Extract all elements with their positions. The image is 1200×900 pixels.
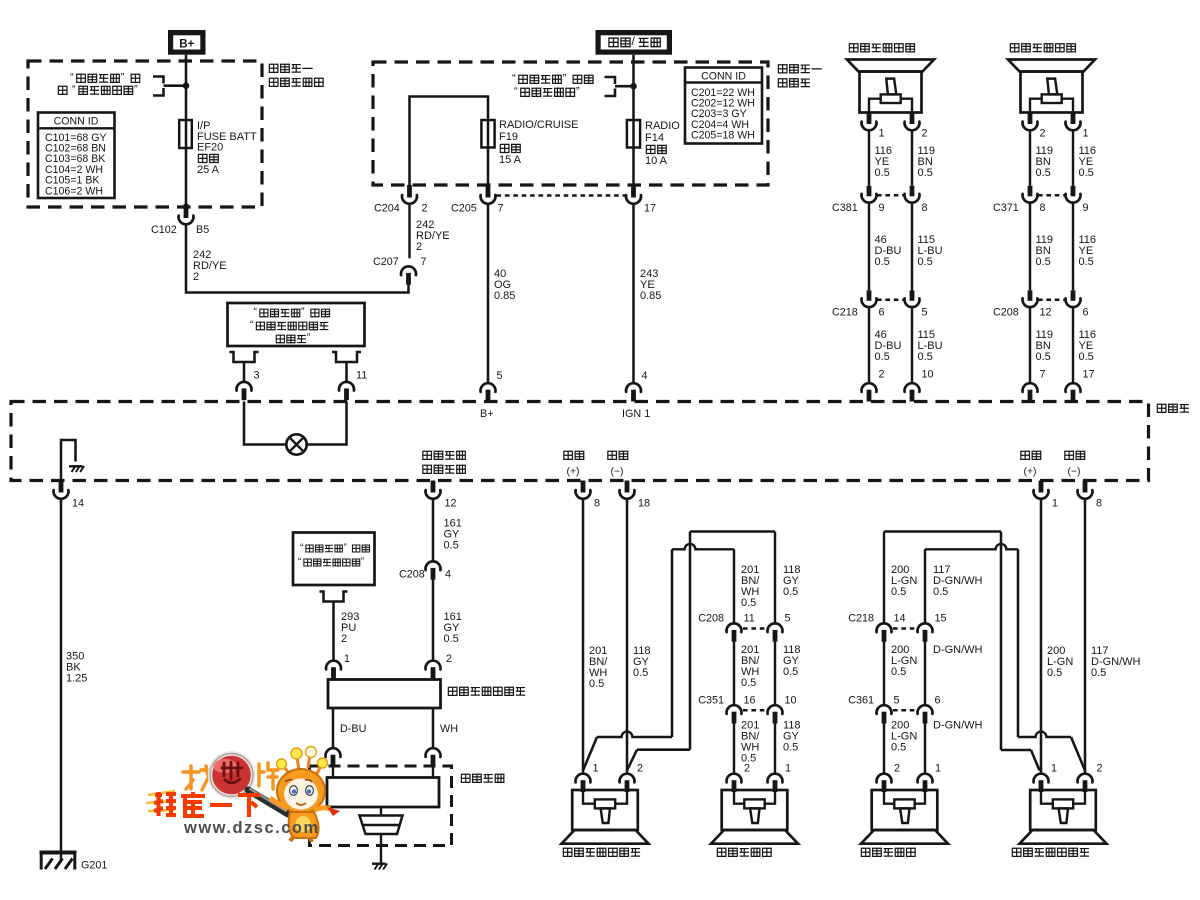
radio pin 3 connector	[237, 382, 252, 391]
svg-text:“: “	[514, 86, 518, 98]
svg-text:0.5: 0.5	[741, 597, 756, 609]
radio pin 8 connector (right output -)	[1083, 481, 1088, 493]
svg-text:6: 6	[1083, 307, 1089, 319]
svg-text:C218: C218	[848, 613, 874, 625]
svg-text:C204: C204	[374, 203, 400, 215]
wire inside fuse box 2 from C204 up and over to fuse F19	[410, 97, 489, 186]
svg-text:“: “	[72, 84, 76, 96]
svg-text:0.5: 0.5	[444, 540, 459, 552]
speaker pins 2/1	[877, 774, 892, 783]
svg-text:8: 8	[594, 498, 600, 510]
branch junction diagonal from tweeter-L pin1	[583, 737, 597, 771]
antenna coupler cone	[380, 807, 382, 816]
svg-text:RADIO/CRUISE: RADIO/CRUISE	[499, 119, 578, 131]
ground G201 symbol	[40, 851, 77, 855]
svg-text:11: 11	[744, 613, 755, 625]
power node RUN/START box	[596, 30, 673, 55]
svg-text:15 A: 15 A	[499, 154, 522, 166]
branch vertical x672	[671, 549, 674, 737]
wires between C218 and C361	[883, 640, 885, 705]
label fuse box 2: rongsihe - instrument panel	[778, 65, 787, 73]
svg-text:”: ”	[301, 306, 305, 318]
svg-text:2: 2	[422, 203, 428, 215]
label: antenna module power signal	[423, 451, 432, 459]
connector C361 pins 5/6	[877, 705, 892, 714]
svg-text:4: 4	[642, 370, 648, 382]
wire 200 L-GN 0.5 main (pin1 to tweeter-R pin1)	[1040, 500, 1043, 773]
svg-text:“: “	[70, 72, 74, 84]
wire D-BU from antenna module	[332, 708, 335, 747]
svg-text:F14: F14	[645, 132, 664, 144]
svg-text:“: “	[300, 542, 303, 553]
glass antenna pin connector left	[326, 748, 341, 757]
junction dot on B+ wire	[183, 82, 190, 89]
connector C204 pin 2	[407, 185, 412, 198]
connector C371 pins 8/9	[1028, 186, 1033, 197]
branch horizontal y549 with hop over x1001 vertical	[925, 544, 1018, 549]
watermark dzsc logo	[146, 747, 340, 843]
svg-text:0.5: 0.5	[589, 678, 604, 690]
svg-text:6: 6	[935, 695, 941, 707]
svg-text:1.25: 1.25	[66, 673, 87, 685]
wires to speaker	[883, 721, 885, 773]
connector C205 pin 17	[631, 185, 636, 198]
speaker symbol 右前扬声器	[872, 790, 938, 830]
svg-text:10 A: 10 A	[645, 155, 668, 167]
svg-text:1: 1	[593, 763, 599, 775]
svg-text:(−): (−)	[611, 467, 624, 478]
svg-text:2: 2	[341, 633, 347, 645]
svg-text:D-GN/WH: D-GN/WH	[933, 644, 983, 656]
svg-text:D-GN/WH: D-GN/WH	[933, 719, 983, 731]
svg-text:14: 14	[72, 498, 84, 510]
radio pin 8 connector (left output +)	[581, 481, 586, 493]
svg-text:9: 9	[1083, 202, 1089, 214]
svg-text:1: 1	[1083, 128, 1089, 140]
wire EF20 to C102	[185, 148, 188, 204]
fuse box 1 (engine compartment) dashed outline	[28, 61, 262, 207]
branch vertical x1001	[1000, 532, 1003, 751]
bracket under note box right	[332, 352, 361, 362]
svg-text:D-BU: D-BU	[340, 723, 366, 735]
label output(-) left	[608, 451, 617, 459]
svg-text:C102: C102	[151, 224, 177, 236]
svg-text:5: 5	[785, 613, 791, 625]
branch vertical x690	[689, 532, 692, 750]
svg-text:RADIO: RADIO	[645, 120, 680, 132]
svg-text:15: 15	[935, 613, 947, 625]
wires between C208 and C351	[733, 640, 735, 705]
svg-text:0.5: 0.5	[918, 256, 933, 268]
svg-text:(−): (−)	[1068, 467, 1081, 478]
bracket to RUN/START wire	[605, 77, 634, 96]
wire 293 PU 2	[332, 611, 335, 660]
svg-text:”: ”	[576, 86, 580, 98]
wires down to connector C218	[883, 532, 885, 623]
antenna module pin 2 connector	[426, 661, 441, 670]
svg-text:C205=18 WH: C205=18 WH	[691, 130, 755, 142]
svg-text:2: 2	[744, 763, 750, 775]
svg-text:C208: C208	[698, 613, 724, 625]
svg-text:8: 8	[922, 202, 928, 214]
wire 242 RD/YE 2 between C204 and C207	[408, 205, 410, 258]
svg-text:0.5: 0.5	[783, 666, 798, 678]
speaker connector pin 1	[867, 113, 872, 125]
svg-text:0.5: 0.5	[1047, 667, 1062, 679]
svg-text:7: 7	[498, 203, 504, 215]
speaker label 右前扬声器	[861, 848, 870, 856]
bracket under note box left	[230, 352, 259, 362]
radio pins 7/17 connectors	[1023, 383, 1038, 392]
svg-text:EF20: EF20	[197, 142, 223, 154]
svg-text:0.5: 0.5	[1091, 667, 1106, 679]
svg-text:C106=2 WH: C106=2 WH	[45, 185, 103, 197]
svg-text:”: ”	[343, 542, 346, 553]
svg-text:6: 6	[879, 307, 885, 319]
svg-text:0.5: 0.5	[891, 586, 906, 598]
svg-text:4: 4	[445, 569, 451, 581]
svg-text:18: 18	[638, 498, 650, 510]
bracket under defogger note box	[320, 592, 348, 602]
svg-text:0.5: 0.5	[1036, 167, 1051, 179]
connector C208 pin 4 (antenna feed)	[426, 561, 441, 570]
connector C218 pins 6/5	[867, 290, 872, 301]
branch horizontal y737 with hop over 118GY wire	[597, 732, 672, 737]
branch horizontal y737 with hop over main + wire	[1018, 732, 1071, 737]
tweeter-L pin 1 connector	[582, 771, 584, 773]
svg-text:”: ”	[563, 73, 567, 85]
glass antenna (boli tianxian) dashed box	[310, 766, 452, 846]
glass antenna element rectangle	[327, 778, 439, 808]
connector C205 in-line dashed link to pin 17	[497, 194, 626, 197]
branch vertical x1018	[1017, 549, 1020, 737]
fuse F19	[481, 120, 494, 148]
svg-text:0.5: 0.5	[891, 741, 906, 753]
svg-text:2: 2	[193, 271, 199, 283]
connector C381 pins 9/8	[867, 186, 872, 197]
svg-text:0.5: 0.5	[1036, 256, 1051, 268]
svg-text:“: “	[250, 319, 254, 331]
wire 350 BK 1.25 to ground G201	[60, 500, 63, 852]
speaker connector pin 1	[1071, 113, 1076, 125]
tweeter-R pin 2 connector	[1084, 771, 1086, 773]
svg-text:2: 2	[1097, 763, 1103, 775]
svg-text:C218: C218	[832, 307, 858, 319]
wire 117 D-GN/WH 0.5 main (pin8 to tweeter-R pin2)	[1084, 500, 1087, 771]
svg-text:11: 11	[356, 370, 367, 382]
svg-text:0.5: 0.5	[1079, 167, 1094, 179]
svg-text:“: “	[254, 306, 258, 318]
speaker pins 2/1	[727, 774, 742, 783]
wire 40 OG 0.85 to radio pin 5	[487, 205, 490, 382]
svg-text:“: “	[298, 556, 301, 567]
svg-text:CONN ID: CONN ID	[54, 116, 99, 128]
bracket to B+ wire	[153, 77, 186, 96]
wire cone to chassis ground	[380, 834, 382, 863]
radio pin 5 connector	[481, 383, 496, 392]
svg-text:1: 1	[1051, 763, 1057, 775]
branch horizontal y531.5 to C208 pin 5	[690, 530, 775, 533]
speaker label 左侧高频扬声器	[563, 848, 572, 856]
svg-text:12: 12	[1040, 307, 1052, 319]
wire 161 GY 0.5 lower	[432, 578, 435, 660]
svg-text:”: ”	[134, 84, 138, 96]
svg-text:(+): (+)	[1024, 467, 1037, 478]
wire WH from antenna module	[432, 708, 435, 747]
svg-text:2: 2	[879, 369, 885, 381]
svg-text:B+: B+	[480, 408, 494, 420]
svg-text:0.5: 0.5	[891, 666, 906, 678]
svg-text:8: 8	[1096, 498, 1102, 510]
svg-text:”: ”	[361, 556, 364, 567]
svg-text:17: 17	[1083, 369, 1095, 381]
branch horizontal y531.5 to C218 pin 14	[884, 530, 1001, 533]
svg-text:10: 10	[785, 695, 797, 707]
svg-text:7: 7	[421, 256, 427, 268]
svg-text:5: 5	[497, 370, 503, 382]
svg-text:C208: C208	[993, 307, 1019, 319]
svg-text:0.5: 0.5	[1036, 351, 1051, 363]
label output(-) right	[1065, 451, 1074, 459]
wire B+ to fuse EF20	[185, 55, 188, 120]
speaker connector pin 2	[910, 113, 915, 125]
lamp symbol (circle-X)	[286, 434, 306, 454]
connector C207 pin 7	[401, 266, 416, 275]
speaker symbol 右侧高频扬声器	[1030, 790, 1096, 830]
svg-text:2: 2	[1040, 128, 1046, 140]
tweeter-R pin 1 connector	[1040, 771, 1042, 773]
connector C205 pin 7	[486, 185, 491, 198]
svg-text:17: 17	[644, 203, 656, 215]
branch horizontal y750	[1001, 749, 1031, 752]
svg-text:0.5: 0.5	[783, 586, 798, 598]
ground wire inside radio (pin 14 net)	[61, 440, 76, 481]
power node B+ box	[168, 30, 206, 55]
connector C208 pins 11/5	[727, 623, 742, 632]
wire RUN/START down to fuse F14	[632, 55, 635, 120]
label output(+) right	[1021, 451, 1030, 459]
chassis ground symbol inside radio	[69, 465, 83, 467]
svg-text:0.5: 0.5	[933, 586, 948, 598]
svg-text:0.5: 0.5	[875, 256, 890, 268]
svg-text:8: 8	[1040, 202, 1046, 214]
svg-text:C351: C351	[698, 695, 724, 707]
svg-text:2: 2	[446, 653, 452, 665]
speaker symbol 左侧高频扬声器	[572, 790, 638, 830]
connector C218 pins 14/15	[877, 623, 892, 632]
glass antenna pin connector right	[426, 748, 441, 757]
svg-text:1: 1	[935, 763, 941, 775]
illumination lamp wire inside radio	[244, 402, 286, 445]
wire 118 GY 0.5 main (pin18 to tweeter-L pin2)	[626, 500, 629, 771]
svg-text:C371: C371	[993, 202, 1019, 214]
radio pin 4 connector	[626, 383, 641, 392]
radio pin 14 connector	[59, 481, 64, 493]
svg-text:0.5: 0.5	[918, 351, 933, 363]
svg-text:5: 5	[894, 695, 900, 707]
label output(+) left	[564, 451, 573, 459]
speaker right-rear (you hou ce yangshengqi)	[849, 44, 858, 52]
fuse box 2 (instrument panel) dashed outline	[373, 62, 768, 185]
svg-text:0.5: 0.5	[741, 677, 756, 689]
svg-text:F19: F19	[499, 131, 518, 143]
CONN ID table 2	[685, 68, 762, 144]
svg-text:C208: C208	[399, 569, 425, 581]
svg-text:0.5: 0.5	[875, 167, 890, 179]
svg-text:IGN 1: IGN 1	[622, 408, 650, 420]
svg-text:B+: B+	[179, 39, 194, 51]
interior illumination note box (zhaoming xitong)	[228, 303, 365, 346]
svg-text:0.5: 0.5	[1079, 256, 1094, 268]
wire 243 YE 0.85 to radio pin 4	[632, 205, 635, 382]
speaker label 左前扬声器	[717, 848, 726, 856]
radio pin 1 connector (right output +)	[1039, 481, 1044, 493]
svg-text:10: 10	[922, 369, 934, 381]
svg-text:0.5: 0.5	[918, 167, 933, 179]
label fuse box 1: rongsihe - engine bay	[269, 64, 278, 72]
svg-text:0.5: 0.5	[875, 351, 890, 363]
branch diagonal to tweeter-R pin1	[1031, 750, 1040, 771]
radio pins 2/10 connectors	[862, 383, 877, 392]
connector C351 pins 16/10	[727, 705, 742, 714]
svg-text:0.5: 0.5	[783, 741, 798, 753]
svg-text:“: “	[512, 73, 516, 85]
speaker connector pin 2	[1028, 113, 1033, 125]
speaker left-rear (zuo hou ce yangshengqi)	[1010, 44, 1019, 52]
radio antenna module box (shouyinji tianxian mokuai)	[328, 680, 441, 709]
svg-text:14: 14	[894, 613, 906, 625]
svg-text:1: 1	[785, 763, 791, 775]
chassis ground below glass antenna	[372, 862, 386, 864]
svg-text:5: 5	[922, 307, 928, 319]
svg-text:1: 1	[879, 128, 885, 140]
radio pin 12 connector	[431, 481, 436, 493]
svg-text:”: ”	[121, 72, 125, 84]
wire 161 GY 0.5 upper	[432, 500, 435, 561]
defogger note box (guding chechuang)	[293, 533, 375, 586]
antenna module pin 1 connector	[326, 661, 341, 670]
speaker label 右侧高频扬声器	[1012, 848, 1021, 856]
svg-text:0.5: 0.5	[1079, 351, 1094, 363]
svg-text:B5: B5	[196, 224, 209, 236]
svg-text:WH: WH	[440, 723, 458, 735]
label shouyinji (radio)	[1157, 404, 1166, 412]
svg-text:(+): (+)	[567, 467, 580, 478]
svg-text:12: 12	[445, 498, 457, 510]
connector C208 pins 12/6	[1028, 290, 1033, 301]
svg-text:1: 1	[1052, 498, 1058, 510]
junction dot on RUN/START wire	[630, 83, 637, 90]
branch horizontal y749.7	[637, 748, 690, 751]
svg-text:9: 9	[879, 202, 885, 214]
svg-text:www.dzsc.com: www.dzsc.com	[183, 819, 320, 837]
svg-text:16: 16	[744, 695, 756, 707]
branch horizontal y549 to C208 pin 11 (hops over x690)	[672, 544, 734, 549]
svg-text:0.5: 0.5	[444, 633, 459, 645]
svg-text:2: 2	[637, 763, 643, 775]
svg-text:7: 7	[1040, 369, 1046, 381]
svg-text:25 A: 25 A	[197, 164, 220, 176]
svg-text:2: 2	[894, 763, 900, 775]
svg-text:C205: C205	[451, 203, 477, 215]
svg-text:C207: C207	[373, 256, 399, 268]
wires to speaker	[733, 721, 735, 773]
fuse EF20	[179, 120, 192, 148]
branch junction diagonal from tweeter-L pin2	[627, 750, 637, 771]
svg-text:CONN ID: CONN ID	[701, 70, 746, 82]
svg-text:0.85: 0.85	[494, 290, 515, 302]
CONN ID table 1	[38, 113, 115, 199]
svg-text:”: ”	[307, 332, 311, 344]
svg-text:2: 2	[922, 128, 928, 140]
svg-text:0.5: 0.5	[633, 667, 648, 679]
fuse F14	[627, 120, 640, 148]
svg-text:G201: G201	[81, 860, 107, 872]
speaker symbol 左前扬声器	[722, 790, 788, 830]
branch diagonal to tweeter-R pin2	[1071, 737, 1085, 771]
svg-text:2: 2	[416, 241, 422, 253]
radio pin 11 connector	[339, 382, 354, 391]
tweeter-L pin 2 connector	[626, 771, 628, 773]
svg-text:3: 3	[254, 370, 260, 382]
radio pin 18 connector (left output -)	[625, 481, 630, 493]
svg-text:0.85: 0.85	[640, 290, 661, 302]
wire 201 BN/WH 0.5 main (pin8 to tweeter-L pin1)	[582, 500, 585, 771]
wire 242 RD/YE 2 from C102 to C207	[186, 225, 409, 292]
svg-text:1: 1	[344, 653, 350, 665]
wires down to connector C208	[733, 549, 735, 622]
radio unit (shouyinji) dashed box	[11, 402, 1149, 481]
svg-text:C361: C361	[848, 695, 874, 707]
svg-text:C381: C381	[832, 202, 858, 214]
connector C102 pin B5	[184, 204, 189, 218]
